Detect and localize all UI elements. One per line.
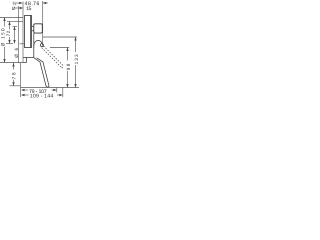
wire wall back line	[18, 6, 20, 63]
wire dim row2	[22, 94, 29, 96]
wire ext line y26.5	[13, 26, 18, 28]
wire baseline y87.5	[21, 87, 80, 89]
node lever solid	[34, 58, 49, 88]
node label d6	[15, 48, 18, 57]
wire ext line y17.5	[0, 17, 23, 19]
wire dim V3	[14, 27, 16, 44]
node label 133	[75, 55, 78, 64]
wire ext x62.8	[62, 88, 64, 98]
node label 78	[12, 73, 15, 79]
wire ext line x20.5	[20, 63, 22, 98]
node handle neck	[32, 26, 34, 31]
wire tick y85.8	[10, 85, 21, 87]
node label 3/4 prefix	[12, 2, 16, 5]
node label d150	[1, 29, 4, 47]
node sleeve line	[33, 33, 35, 57]
node handle knob	[34, 24, 43, 33]
node swivel circle	[40, 44, 43, 47]
node escutcheon plate	[25, 16, 32, 48]
wire ext x57	[56, 88, 58, 93]
wire lever dashed swung	[42, 46, 64, 68]
node label diam prefix	[12, 7, 15, 10]
wire ext E2	[42, 1, 44, 44]
node label 79-107	[29, 89, 46, 93]
node label 48-76	[25, 1, 39, 5]
wire ext line y21.5	[7, 21, 23, 23]
wire dim R1	[67, 48, 69, 61]
wire dim A line	[16, 2, 20, 4]
wire dim B line	[16, 7, 20, 9]
wire ext line y62.5	[0, 62, 23, 64]
wire ext line y47.5	[50, 47, 69, 49]
wire ext line y36.5	[43, 36, 77, 38]
wire wall face line	[22, 2, 24, 63]
wire ext line y43.5	[6, 43, 13, 45]
node label 98	[67, 64, 70, 70]
node label 109-144	[30, 94, 53, 98]
node wall box	[23, 58, 34, 63]
wire dim row1	[22, 89, 28, 91]
wire dim V1	[4, 18, 6, 27]
node label 15	[27, 7, 32, 11]
wire dim V2	[9, 22, 11, 30]
node spout dome	[34, 40, 43, 48]
wire dim V7	[13, 63, 15, 70]
node label 72	[7, 31, 10, 36]
wire dim R2	[75, 37, 77, 52]
